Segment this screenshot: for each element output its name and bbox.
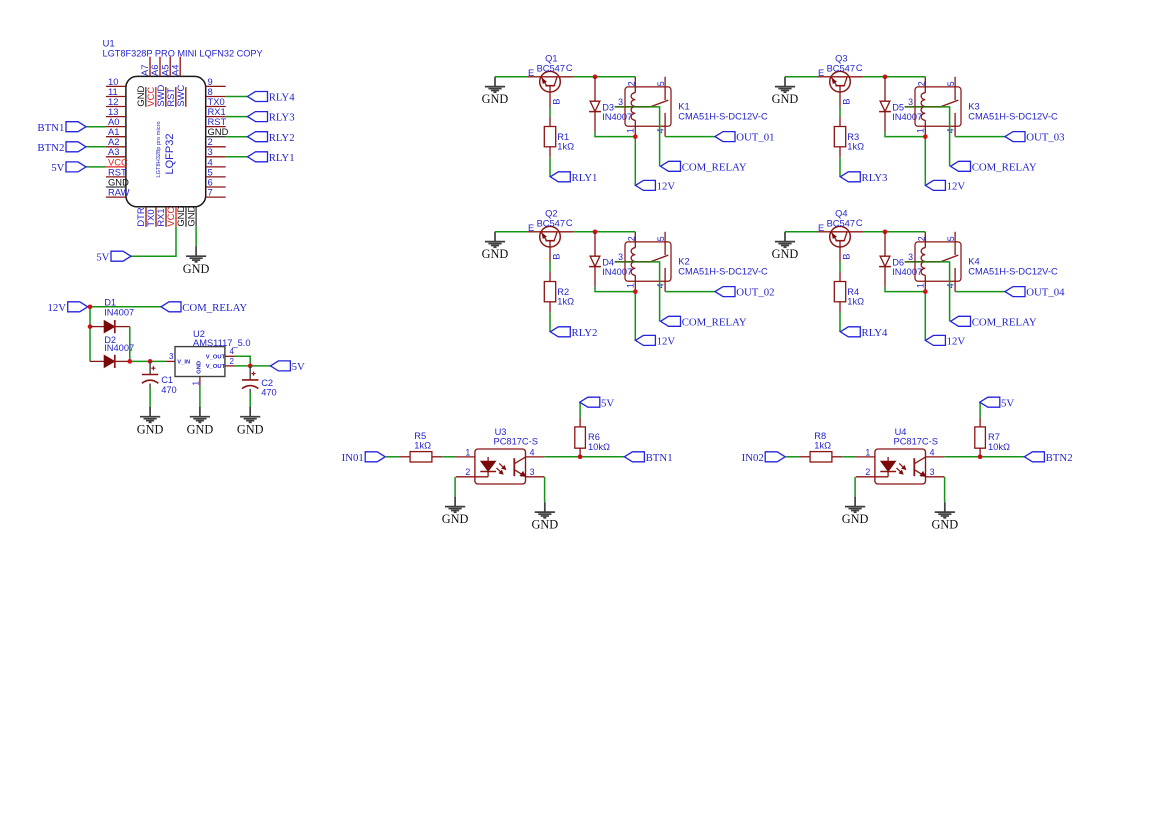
svg-text:E: E xyxy=(528,68,534,78)
svg-text:4: 4 xyxy=(930,447,935,457)
svg-text:3: 3 xyxy=(618,252,623,262)
svg-text:GND: GND xyxy=(482,92,509,106)
svg-text:3: 3 xyxy=(618,97,623,107)
svg-text:D6: D6 xyxy=(892,257,904,267)
svg-text:1: 1 xyxy=(626,283,636,288)
svg-text:COM_RELAY: COM_RELAY xyxy=(182,302,247,314)
svg-text:Q4: Q4 xyxy=(835,209,847,219)
svg-text:12V: 12V xyxy=(657,181,676,193)
svg-text:12V: 12V xyxy=(947,181,966,193)
svg-text:V_OUT: V_OUT xyxy=(206,355,226,361)
svg-text:K3: K3 xyxy=(968,102,979,112)
svg-text:GND: GND xyxy=(197,361,203,374)
svg-text:BTN2: BTN2 xyxy=(1046,452,1073,464)
svg-text:IN4007: IN4007 xyxy=(104,308,134,318)
svg-text:IN4007: IN4007 xyxy=(892,267,922,277)
svg-text:D1: D1 xyxy=(104,298,116,308)
svg-text:D4: D4 xyxy=(602,257,614,267)
svg-text:OUT_01: OUT_01 xyxy=(736,132,774,144)
svg-text:B: B xyxy=(551,254,561,260)
svg-text:BTN1: BTN1 xyxy=(37,122,64,134)
svg-text:5V: 5V xyxy=(96,251,109,263)
svg-text:CMA51H-S-DC12V-C: CMA51H-S-DC12V-C xyxy=(678,266,768,276)
svg-text:V_IN: V_IN xyxy=(177,359,190,365)
svg-text:RLY1: RLY1 xyxy=(269,152,295,164)
svg-text:BC547: BC547 xyxy=(827,64,855,74)
svg-text:E: E xyxy=(528,223,534,233)
svg-text:1: 1 xyxy=(916,283,926,288)
svg-text:B: B xyxy=(841,99,851,105)
svg-text:RLY3: RLY3 xyxy=(862,172,888,184)
svg-text:OUT_04: OUT_04 xyxy=(1026,287,1065,299)
svg-text:C: C xyxy=(856,63,863,73)
svg-text:BC547: BC547 xyxy=(537,219,565,229)
svg-text:GND: GND xyxy=(842,512,869,526)
svg-text:GND: GND xyxy=(442,512,469,526)
svg-text:5V: 5V xyxy=(1001,397,1014,409)
svg-text:COM_RELAY: COM_RELAY xyxy=(682,161,747,173)
svg-text:RLY4: RLY4 xyxy=(269,92,296,104)
svg-text:PC817C-S: PC817C-S xyxy=(894,437,938,447)
svg-text:2: 2 xyxy=(917,236,927,241)
svg-text:R7: R7 xyxy=(988,432,1000,442)
svg-text:4: 4 xyxy=(530,447,535,457)
svg-text:Q1: Q1 xyxy=(545,54,557,64)
svg-text:C2: C2 xyxy=(261,378,273,388)
svg-text:1: 1 xyxy=(465,447,470,457)
svg-text:3: 3 xyxy=(908,97,913,107)
svg-text:1: 1 xyxy=(865,447,870,457)
svg-text:Q3: Q3 xyxy=(835,54,847,64)
svg-text:2: 2 xyxy=(865,467,870,477)
svg-text:A4: A4 xyxy=(169,65,180,76)
svg-text:3: 3 xyxy=(908,252,913,262)
svg-text:R6: R6 xyxy=(588,432,600,442)
svg-text:CMA51H-S-DC12V-C: CMA51H-S-DC12V-C xyxy=(968,111,1058,121)
svg-text:IN4007: IN4007 xyxy=(602,112,632,122)
svg-text:IN02: IN02 xyxy=(742,452,764,464)
svg-text:CMA51H-S-DC12V-C: CMA51H-S-DC12V-C xyxy=(678,111,768,121)
svg-text:RLY3: RLY3 xyxy=(269,112,295,124)
svg-text:COM_RELAY: COM_RELAY xyxy=(682,316,747,328)
svg-text:C: C xyxy=(856,218,863,228)
svg-text:R2: R2 xyxy=(557,287,569,297)
svg-text:1kΩ: 1kΩ xyxy=(847,296,864,306)
svg-text:12V: 12V xyxy=(947,336,966,348)
svg-text:OUT_02: OUT_02 xyxy=(736,287,774,299)
svg-text:RLY2: RLY2 xyxy=(269,132,295,144)
svg-text:GND: GND xyxy=(931,518,958,532)
svg-text:10kΩ: 10kΩ xyxy=(588,442,610,452)
svg-text:1: 1 xyxy=(916,128,926,133)
svg-text:PC817C-S: PC817C-S xyxy=(494,437,538,447)
svg-text:LGT8F328P PRO MINI LQFN32 COPY: LGT8F328P PRO MINI LQFN32 COPY xyxy=(103,48,263,58)
svg-text:1kΩ: 1kΩ xyxy=(814,440,831,450)
svg-text:CMA51H-S-DC12V-C: CMA51H-S-DC12V-C xyxy=(968,266,1058,276)
svg-text:E: E xyxy=(818,68,824,78)
svg-text:GND: GND xyxy=(237,422,264,436)
svg-text:E: E xyxy=(818,223,824,233)
svg-text:R4: R4 xyxy=(847,287,859,297)
svg-text:GND: GND xyxy=(772,247,799,261)
svg-text:1kΩ: 1kΩ xyxy=(847,141,864,151)
svg-text:RAW: RAW xyxy=(108,187,130,198)
svg-text:10kΩ: 10kΩ xyxy=(988,442,1010,452)
svg-text:COM_RELAY: COM_RELAY xyxy=(972,316,1037,328)
svg-text:AMS1117_5.0: AMS1117_5.0 xyxy=(193,338,251,348)
svg-text:K4: K4 xyxy=(968,257,979,267)
svg-text:5V: 5V xyxy=(601,397,614,409)
svg-text:Q2: Q2 xyxy=(545,209,557,219)
svg-text:12V: 12V xyxy=(657,336,676,348)
svg-text:BC547: BC547 xyxy=(537,64,565,74)
svg-text:C1: C1 xyxy=(161,375,173,385)
svg-text:BC547: BC547 xyxy=(827,219,855,229)
svg-text:B: B xyxy=(841,254,851,260)
svg-text:4: 4 xyxy=(230,347,235,356)
svg-text:U3: U3 xyxy=(495,427,507,437)
svg-text:2: 2 xyxy=(230,357,235,366)
svg-text:BTN2: BTN2 xyxy=(37,142,64,154)
svg-text:470: 470 xyxy=(261,387,277,397)
svg-text:B: B xyxy=(551,99,561,105)
svg-text:GND: GND xyxy=(183,262,210,276)
svg-text:2: 2 xyxy=(627,236,637,241)
svg-text:5V: 5V xyxy=(292,361,305,373)
svg-text:5: 5 xyxy=(946,236,956,241)
svg-text:R5: R5 xyxy=(414,431,426,441)
svg-text:LQFP32: LQFP32 xyxy=(164,134,176,175)
svg-text:R8: R8 xyxy=(814,431,826,441)
svg-text:2: 2 xyxy=(627,81,637,86)
svg-text:D5: D5 xyxy=(892,102,904,112)
svg-text:U4: U4 xyxy=(895,427,907,437)
svg-text:470: 470 xyxy=(161,385,177,395)
svg-text:LGT8H328p pro micro: LGT8H328p pro micro xyxy=(156,121,162,177)
svg-text:3: 3 xyxy=(530,467,535,477)
svg-text:GND: GND xyxy=(187,422,214,436)
svg-text:R1: R1 xyxy=(557,132,569,142)
svg-text:BTN1: BTN1 xyxy=(646,452,673,464)
svg-text:1: 1 xyxy=(626,128,636,133)
svg-text:1kΩ: 1kΩ xyxy=(557,296,574,306)
svg-text:3: 3 xyxy=(169,352,174,361)
svg-text:GND: GND xyxy=(772,92,799,106)
svg-text:IN01: IN01 xyxy=(342,452,364,464)
svg-text:IN4007: IN4007 xyxy=(104,343,134,353)
svg-text:R3: R3 xyxy=(847,132,859,142)
svg-text:GND: GND xyxy=(531,518,558,532)
svg-text:K1: K1 xyxy=(678,102,689,112)
svg-text:V_OUT: V_OUT xyxy=(206,364,226,370)
svg-text:5: 5 xyxy=(656,236,666,241)
svg-text:5V: 5V xyxy=(51,162,64,174)
svg-text:2: 2 xyxy=(917,81,927,86)
svg-text:COM_RELAY: COM_RELAY xyxy=(972,161,1037,173)
svg-text:1kΩ: 1kΩ xyxy=(414,440,431,450)
svg-text:7: 7 xyxy=(208,187,213,198)
svg-text:IN4007: IN4007 xyxy=(892,112,922,122)
svg-text:OUT_03: OUT_03 xyxy=(1026,132,1064,144)
svg-text:5: 5 xyxy=(656,81,666,86)
svg-text:3: 3 xyxy=(930,467,935,477)
svg-text:K2: K2 xyxy=(678,257,689,267)
svg-text:D3: D3 xyxy=(602,102,614,112)
svg-text:RLY2: RLY2 xyxy=(572,327,598,339)
svg-text:C: C xyxy=(566,218,573,228)
svg-text:1: 1 xyxy=(192,381,201,386)
svg-text:GND: GND xyxy=(185,206,196,227)
svg-text:IN4007: IN4007 xyxy=(602,267,632,277)
svg-text:SWC: SWC xyxy=(175,84,186,106)
svg-text:GND: GND xyxy=(482,247,509,261)
svg-text:12V: 12V xyxy=(47,302,66,314)
svg-text:1kΩ: 1kΩ xyxy=(557,141,574,151)
svg-text:5: 5 xyxy=(946,81,956,86)
svg-text:RLY4: RLY4 xyxy=(862,327,889,339)
svg-text:RLY1: RLY1 xyxy=(572,172,598,184)
svg-text:2: 2 xyxy=(465,467,470,477)
svg-text:GND: GND xyxy=(137,422,164,436)
svg-text:C: C xyxy=(566,63,573,73)
